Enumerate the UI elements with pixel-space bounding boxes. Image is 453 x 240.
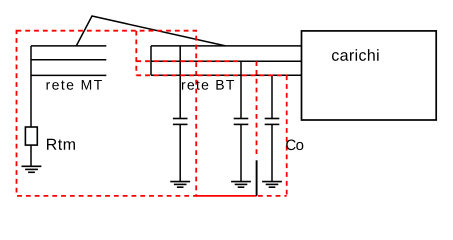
ground (C3) [262, 182, 282, 188]
wire: black vertical fault segment at x=256.6 [256, 160, 258, 196]
carichi box (loads) [302, 31, 437, 120]
rete BT bus line 2 [151, 60, 302, 62]
resistor Rtm [25, 127, 37, 145]
capacitor C2 bottom wire [240, 125, 242, 181]
label rete BT [182, 80, 234, 90]
ground (C1) [170, 182, 190, 188]
capacitor C2 top wire [240, 61, 242, 118]
capacitor C3 plates [265, 118, 280, 120]
rete MT bus line 1 [31, 45, 106, 47]
fault-loop path along BT line 2 (red dashed horizontal) [136, 60, 238, 62]
capacitor C1 bottom wire [179, 125, 181, 181]
rete MT bus line 2 [31, 59, 106, 61]
label Rtm [47, 139, 75, 150]
rete BT bus line 3 [151, 74, 302, 76]
capacitor C1 top wire [179, 46, 181, 118]
fault-loop red dashed vertical at x=287 [286, 75, 288, 196]
capacitor C3 bottom wire [271, 125, 273, 181]
fault-loop red solid ground-return segment [196, 195, 256, 197]
capacitor C1 plates [173, 118, 188, 120]
fault-loop red dashed bottom segment to x=287 [258, 195, 287, 197]
ground (MT neutral earth) [22, 166, 42, 172]
fault-loop box 1 (red dashed rectangle around rete MT and Rtm) [17, 31, 197, 196]
rete BT bus line 1 [151, 45, 302, 47]
wire: Rtm to ground [30, 145, 32, 166]
label Co [286, 140, 303, 151]
wire: MT-to-BT connection (tent over loop box) [76, 16, 225, 46]
capacitor C3 top wire [271, 75, 273, 118]
fault-loop box 2 left edge (red dashed vertical at transformer) [135, 31, 137, 76]
ground (C2) [231, 182, 251, 188]
fault-loop path along BT line 3 (red dashed horizontal) [136, 74, 286, 76]
wire: BT bus left vertical [150, 46, 152, 75]
wire: MT bus left vertical down to Rtm [30, 46, 32, 127]
rete MT bus line 3 [31, 74, 106, 76]
fault-loop red dashed vertical at x=256 [256, 61, 258, 158]
capacitor C2 plates [234, 118, 249, 120]
label carichi [332, 49, 379, 61]
label rete MT [47, 80, 102, 90]
